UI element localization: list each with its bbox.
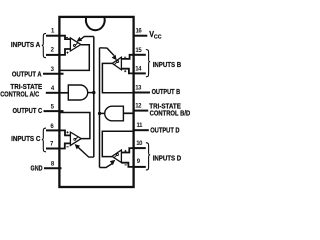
comparator B minus <box>124 56 126 58</box>
svg-text:5: 5 <box>51 105 55 111</box>
pin 5 <box>44 110 64 112</box>
svg-text:9: 9 <box>137 159 141 165</box>
comparator C minus <box>66 146 68 148</box>
svg-text:8: 8 <box>51 162 55 168</box>
svg-text:3: 3 <box>51 67 55 73</box>
svg-text:6: 6 <box>50 124 54 130</box>
comparator B input stubs <box>121 55 133 74</box>
op-amp A hysteresis mark <box>75 43 78 46</box>
output D wire <box>102 131 133 156</box>
svg-text:1: 1 <box>51 29 55 35</box>
svg-text:14: 14 <box>135 66 142 72</box>
pin 1 <box>46 35 60 37</box>
control arm to A <box>80 37 94 41</box>
svg-text:OUTPUT D: OUTPUT D <box>150 125 179 134</box>
svg-text:INPUTS B: INPUTS B <box>153 60 182 69</box>
pin 4 <box>46 92 61 94</box>
op-amp C <box>70 132 81 145</box>
tri-state gate G2 <box>105 106 124 121</box>
op-amp B hysteresis mark <box>114 62 117 65</box>
control arm to C <box>78 147 94 157</box>
control arm to D <box>100 164 113 168</box>
svg-text:OUTPUT B: OUTPUT B <box>152 87 181 96</box>
pin 6 <box>46 129 60 131</box>
pin 12 <box>133 110 148 112</box>
svg-text:OUTPUT A: OUTPUT A <box>12 69 42 78</box>
svg-text:12: 12 <box>135 104 142 110</box>
op-amp C hysteresis mark <box>75 136 78 139</box>
comparator C plus <box>66 131 68 133</box>
IC body U1 <box>59 17 133 187</box>
control arm to B <box>100 48 115 56</box>
comparator D minus <box>125 164 127 166</box>
svg-text:GND: GND <box>31 164 43 173</box>
gate G1 output wire <box>88 92 94 94</box>
pin 10 <box>133 147 146 149</box>
gate G2 output wire <box>100 112 105 114</box>
svg-text:INPUTS D: INPUTS D <box>153 154 182 163</box>
output A wire <box>60 45 89 71</box>
brace inputs D <box>146 143 150 170</box>
brace inputs A <box>42 33 46 57</box>
control net B/D vertical wire <box>99 48 101 168</box>
op-amp D <box>112 150 121 163</box>
output C wire <box>60 113 90 139</box>
brace inputs B <box>146 50 150 77</box>
comparator D input stubs <box>121 148 133 167</box>
pin 16 <box>133 35 147 37</box>
comparator D plus <box>124 150 126 152</box>
svg-text:CONTROL B/D: CONTROL B/D <box>150 109 191 118</box>
pin 15 <box>133 54 146 56</box>
comparator A minus <box>66 36 68 38</box>
op-amp A <box>70 38 80 51</box>
notch <box>86 18 105 30</box>
svg-text:4: 4 <box>51 86 55 92</box>
pin 8 <box>44 167 62 169</box>
gate G2 input wire <box>123 112 133 114</box>
junction dot B/D <box>98 112 101 115</box>
pin 7 <box>46 148 60 150</box>
arrowhead D <box>110 160 114 164</box>
pin 13 <box>133 92 150 94</box>
comparator C input stubs <box>60 130 70 148</box>
tri-state gate G1 <box>68 85 87 100</box>
svg-text:16: 16 <box>136 28 143 34</box>
gate G1 input wire <box>60 92 68 94</box>
arrowhead A <box>77 37 81 41</box>
svg-text:2: 2 <box>51 47 55 53</box>
op-amp B <box>112 57 121 70</box>
svg-text:INPUTS A: INPUTS A <box>11 40 40 49</box>
pin 14 <box>133 72 146 74</box>
svg-text:CC: CC <box>154 34 162 40</box>
svg-text:CONTROL A/C: CONTROL A/C <box>0 90 39 99</box>
arrowhead B <box>112 55 116 59</box>
comparator A plus <box>66 52 68 54</box>
svg-text:OUTPUT C: OUTPUT C <box>13 106 43 115</box>
pin 9 <box>133 166 146 168</box>
pin 3 <box>43 73 64 75</box>
comparator A input stubs <box>60 36 70 55</box>
comparator B plus <box>124 70 126 72</box>
arrowhead C <box>75 145 79 149</box>
svg-text:11: 11 <box>137 123 144 129</box>
svg-text:INPUTS C: INPUTS C <box>11 134 40 143</box>
junction dot A/C <box>92 91 95 94</box>
output B wire <box>102 63 133 92</box>
svg-text:7: 7 <box>50 142 54 148</box>
pin 11 <box>133 129 149 131</box>
svg-text:10: 10 <box>136 141 143 147</box>
brace inputs C <box>42 128 46 152</box>
control net A/C vertical wire <box>93 37 95 158</box>
op-amp D hysteresis mark <box>114 155 117 158</box>
svg-text:15: 15 <box>135 48 142 54</box>
svg-text:13: 13 <box>135 86 142 92</box>
pin 2 <box>46 54 60 56</box>
